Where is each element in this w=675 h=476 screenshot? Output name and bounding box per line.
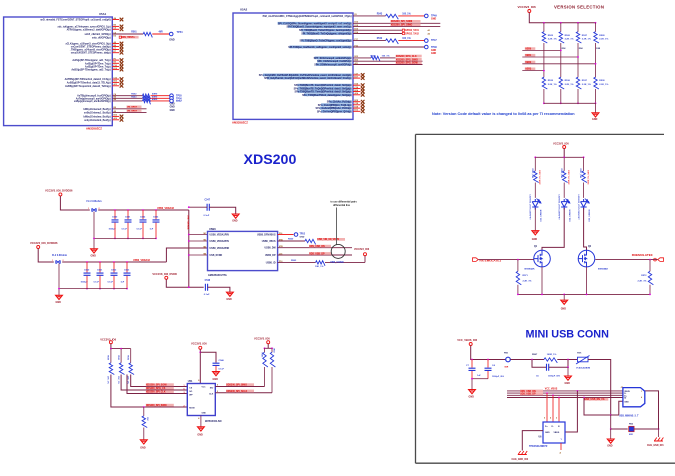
- pin F17 of U5A2: [301, 39, 351, 42]
- svg-text:1: 1: [52, 260, 53, 262]
- svg-text:R567_DNI: R567_DNI: [579, 169, 581, 179]
- wire branch down: [543, 23, 545, 32]
- svg-text:100_1%: 100_1%: [402, 38, 410, 40]
- net label XDS_USB_DP: [309, 252, 331, 255]
- svg-text:AxBS(p)SP-TDnn/gpmc_ad2_Tx(p): AxBS(p)SP-TDnn/gpmc_ad2_Tx(p): [71, 69, 110, 72]
- svg-text:XDS200_SPI1_SIMO: XDS200_SPI1_SIMO: [396, 59, 418, 61]
- svg-text:6: 6: [544, 418, 545, 420]
- test point TP55: [170, 94, 174, 98]
- svg-text:XDS200_SPI_SIMO: XDS200_SPI_SIMO: [391, 24, 413, 27]
- svg-text:XDS200_SPI_SOMI: XDS200_SPI_SOMI: [146, 385, 167, 387]
- resistor R546 100_1%: [371, 56, 380, 61]
- svg-text:2.2K_1%: 2.2K_1%: [582, 39, 591, 41]
- wire LED1 to ground: [534, 208, 536, 230]
- svg-text:2.2K_1%: 2.2K_1%: [565, 84, 574, 86]
- svg-text:SPn_TX8QBunTS/lcd_data3/gpmc_S: SPn_TX8QBunTS/lcd_data3/gpmc_SnQp(p): [302, 94, 352, 97]
- svg-text:49R: 49R: [159, 31, 164, 34]
- svg-text:100_1%: 100_1%: [402, 13, 410, 15]
- wire pin stub: [112, 78, 119, 80]
- port arrow RXEMULATE0: [658, 258, 664, 262]
- svg-text:2.2K_1%: 2.2K_1%: [599, 39, 608, 41]
- op-amp U5B6 USB PHY box: [208, 231, 278, 270]
- svg-text:100_1%: 100_1%: [382, 56, 390, 58]
- svg-text:XDS_USB_DN: XDS_USB_DN: [309, 246, 325, 248]
- svg-text:GND: GND: [169, 39, 175, 42]
- junction node top bus: [595, 22, 597, 24]
- wire resistor to LED: [583, 183, 585, 198]
- svg-text:BSS84AK: BSS84AK: [525, 267, 536, 270]
- net label VER3: [525, 68, 536, 71]
- op-amp U51 SPI flash box: [187, 384, 215, 416]
- wire resistor to TP: [151, 97, 170, 99]
- svg-text:SO: SO: [189, 391, 192, 393]
- svg-text:R567: R567: [532, 354, 538, 356]
- svg-text:2.2K_1%: 2.2K_1%: [638, 281, 647, 283]
- resistor R580 10K_1%: [109, 363, 114, 375]
- test point TP48: [425, 45, 429, 49]
- svg-text:R543: R543: [377, 12, 383, 15]
- svg-text:60R: 60R: [629, 434, 633, 436]
- svg-text:XDS200_SPI1_CS: XDS200_SPI1_CS: [146, 388, 166, 390]
- wire to ground: [471, 379, 473, 390]
- svg-text:M3: M3: [204, 246, 207, 248]
- svg-text:R572: R572: [641, 275, 647, 277]
- svg-text:GND: GND: [56, 301, 62, 304]
- svg-text:SPn_GnAnvQPBQpnn_QAn(p): SPn_GnAnvQPBQpnn_QAn(p): [317, 110, 352, 113]
- wire pin stub: [112, 59, 119, 61]
- wire cap bank bottom bus: [94, 237, 156, 239]
- wire branch to resistor: [563, 157, 565, 171]
- pin E15 of U5A2: [301, 29, 351, 32]
- svg-text:VCC3V3_IO6_DVDD36: VCC3V3_IO6_DVDD36: [45, 189, 73, 193]
- resistor R567 330R: [582, 171, 587, 183]
- ground: [213, 372, 220, 376]
- junction cap bottom: [127, 238, 129, 240]
- wire flash VCC: [199, 349, 201, 383]
- junction VER1: [577, 56, 579, 58]
- svg-text:C551: C551: [97, 270, 103, 272]
- wire pulldown to ground: [143, 428, 145, 440]
- svg-text:VERSION SELECTION: VERSION SELECTION: [554, 4, 604, 9]
- wire SIMO pulldown: [143, 407, 145, 416]
- svg-text:GND: GND: [592, 118, 598, 121]
- no-connect X: [361, 110, 365, 114]
- wire branch down: [595, 23, 597, 32]
- junction node bottom bus: [595, 102, 597, 104]
- no-connect X: [120, 115, 124, 119]
- svg-text:BSS84AK: BSS84AK: [598, 267, 609, 270]
- ground: [232, 214, 239, 218]
- junction LED branch: [534, 156, 536, 158]
- pin A14 of U5A2: [304, 93, 352, 96]
- svg-text:R535: R535: [548, 80, 554, 82]
- svg-text:USB0_ID: USB0_ID: [266, 262, 276, 264]
- no-connect X: [120, 65, 124, 69]
- svg-text:U5B6_VDDA18: U5B6_VDDA18: [133, 259, 151, 262]
- svg-text:GND: GND: [202, 413, 207, 415]
- wire VCC to bus: [529, 13, 595, 23]
- wire chassis stem: [658, 429, 660, 437]
- wire pin stub: [112, 69, 119, 71]
- svg-text:GND: GND: [140, 447, 146, 450]
- svg-text:5: 5: [217, 385, 218, 387]
- callout leader line: [336, 208, 338, 245]
- svg-text:VCC3V3_IO6: VCC3V3_IO6: [191, 341, 207, 345]
- wire branch down: [577, 23, 579, 32]
- resistor R584 10K_1%: [142, 416, 147, 428]
- svg-text:C542: C542: [140, 216, 146, 219]
- svg-text:VCC_VBUS_IO6: VCC_VBUS_IO6: [457, 338, 477, 342]
- ground: [56, 295, 63, 299]
- svg-text:R563: R563: [291, 260, 297, 262]
- svg-text:VB_SRST: VB_SRST: [127, 111, 138, 113]
- junction cap branch rail2: [86, 261, 88, 263]
- wire connector shell to chassis: [645, 391, 659, 429]
- resistor R587 10K_1%: [270, 352, 275, 367]
- svg-text:R528: R528: [599, 35, 605, 37]
- junction cap bottom rail2: [113, 288, 115, 290]
- svg-text:D55_GREEN: D55_GREEN: [589, 209, 591, 221]
- wire pin stub: [112, 19, 119, 21]
- no-connect X: [120, 58, 124, 62]
- wire cap bank 2 bottom bus: [59, 288, 127, 290]
- wire cap top lead: [126, 262, 128, 272]
- wire pullup to flash XDS200_SPI_CLK: [127, 375, 187, 394]
- pin D18 of U5A2: [320, 107, 352, 110]
- svg-text:GND: GND: [532, 238, 538, 241]
- net label XDS200_SPI_CLK: [146, 390, 174, 393]
- border frame of MINI USB sheet: [416, 134, 675, 463]
- svg-text:secuSU/GENT_STEOP/mmc_dat(p): secuSU/GENT_STEOP/mmc_dat(p): [71, 52, 111, 55]
- net label XDS200_SPI_SOMI: [146, 383, 174, 386]
- svg-text:VCC: VCC: [202, 387, 207, 389]
- svg-text:USB_DVDD: USB_DVDD: [210, 255, 223, 257]
- svg-text:AxBS(p)SP-Tnnpnn/lcd_data14_Tx: AxBS(p)SP-Tnnpnn/lcd_data14_TxDn(p): [65, 85, 111, 88]
- wire resistor to mid node: [560, 43, 562, 77]
- wire down to FB row: [610, 415, 612, 429]
- svg-text:USB0_VDDA1P8V: USB0_VDDA1P8V: [210, 234, 230, 237]
- svg-text:R565_DNI: R565_DNI: [531, 169, 533, 179]
- resistor R542 100_1%: [386, 39, 399, 44]
- svg-text:snby1Gn/xdmb_BuV(p): snby1Gn/xdmb_BuV(p): [84, 119, 111, 122]
- wire cap top lead: [155, 210, 157, 219]
- resistor R525 2.2K_1%: [542, 32, 547, 43]
- wire resistor to TP: [151, 100, 170, 102]
- junction cap bottom rail2: [99, 288, 101, 290]
- svg-text:SPB_GvlyPunnG_GvvQGP-GQnnSNnAP: SPB_GvlyPunnG_GvvQGP-GQnnSNnAPv/xdma_eve…: [264, 77, 352, 80]
- test point TP49: [425, 14, 429, 18]
- svg-text:0.1uF: 0.1uF: [122, 229, 128, 231]
- resistor R538 2.2K_1%: [594, 77, 599, 89]
- wire VER1 select: [522, 56, 578, 58]
- junction node top bus: [543, 22, 545, 24]
- svg-text:USB0_DP: USB0_DP: [265, 255, 276, 257]
- no-connect X: [361, 76, 365, 80]
- wire resistor 2 to bottom bus: [649, 285, 651, 295]
- wire cap top lead: [113, 262, 115, 272]
- junction Q2 gate pulldown: [649, 259, 651, 261]
- wire VCC drop: [364, 256, 366, 263]
- resistor R543 100_1%: [386, 14, 399, 19]
- svg-text:SPI-TX8QBunO_Suuonbv/gpmc_wpn/: SPI-TX8QBunO_Suuonbv/gpmc_wpn/gmii2_rxer…: [287, 26, 352, 29]
- svg-text:USB0_VDDA3P3D: USB0_VDDA3P3D: [210, 247, 230, 250]
- resistor R562 49R9: [143, 94, 151, 99]
- svg-text:VCC3V3_IO6: VCC3V3_IO6: [254, 336, 270, 340]
- wire rail VDDA33: [98, 209, 189, 211]
- wire branch A down: [264, 367, 266, 387]
- svg-text:VCC1V8_IO6_DVDD: VCC1V8_IO6_DVDD: [152, 272, 177, 276]
- junction node bottom bus: [543, 102, 545, 104]
- callout ellipse differential pair: [331, 244, 345, 258]
- wire to resistor R563: [112, 97, 142, 99]
- svg-text:XDS_USB_DP: XDS_USB_DP: [520, 394, 536, 396]
- no-connect X: [361, 87, 365, 91]
- no-connect X: [361, 93, 365, 97]
- svg-text:D54_GREEN: D54_GREEN: [569, 209, 572, 221]
- wire cap top lead: [142, 210, 144, 219]
- junction vertical feed: [188, 286, 190, 288]
- junction Q1 gate pulldown: [517, 259, 519, 261]
- svg-text:C541: C541: [125, 216, 131, 219]
- net bus rows to connector: [507, 390, 623, 392]
- wire to resistor R564: [112, 100, 142, 102]
- resistor R581 10K_1%: [119, 363, 124, 375]
- junction bottom bus: [563, 294, 565, 296]
- no-connect X: [361, 73, 365, 77]
- svg-text:LED0603_LTST-C190KFKT: LED0603_LTST-C190KFKT: [577, 195, 579, 221]
- wire pin stub: [112, 52, 119, 54]
- wire resistor to bottom bus: [595, 89, 597, 103]
- wire R563 to VCC drop: [325, 261, 365, 263]
- svg-text:TP54: TP54: [177, 31, 184, 34]
- chassis ground left: [518, 451, 527, 455]
- svg-text:0.1uF: 0.1uF: [204, 294, 210, 296]
- wire pin stub: [353, 94, 361, 96]
- svg-text:2.2K_1%: 2.2K_1%: [565, 39, 574, 41]
- net label XDS200_SPI_SIMO: [146, 404, 174, 407]
- svg-text:TP52: TP52: [300, 233, 306, 235]
- wire gnd stem mid: [610, 429, 612, 439]
- svg-text:snBp(p)/mcasp0_ahclkr/GPIO(p): snBp(p)/mcasp0_ahclkr/GPIO(p): [74, 100, 111, 103]
- wire VBUS to resistor: [278, 240, 305, 242]
- svg-text:LED0603_LTST-C190KFKT: LED0603_LTST-C190KFKT: [558, 195, 560, 221]
- svg-text:D6: D6: [114, 36, 116, 38]
- wire LED2 to Q1 drain: [542, 208, 564, 250]
- wire branch to resistor: [534, 157, 536, 171]
- wire resistor to LED: [534, 183, 536, 198]
- junction cap branch rail2: [99, 261, 101, 263]
- svg-text:GND: GND: [213, 378, 219, 381]
- no-connect X: [120, 84, 124, 88]
- svg-text:USB_VDDRAIL: USB_VDDRAIL: [186, 215, 189, 231]
- net label XDS200_SPI_SCLK right: [226, 390, 254, 393]
- wire LED3 to Q2 drain: [584, 208, 587, 250]
- junction cap branch: [127, 209, 129, 211]
- svg-text:TPD4S012DRYR: TPD4S012DRYR: [529, 445, 548, 448]
- wire pin stub: [112, 85, 119, 87]
- wire resistor to LED: [563, 183, 565, 198]
- wire USB0_DP: [278, 254, 352, 256]
- svg-text:M1: M1: [204, 233, 207, 235]
- net label XDS200_SPI1: [396, 61, 422, 64]
- no-connect X: [120, 77, 124, 81]
- wire pin stub: [353, 110, 361, 112]
- pin B12 of U5A2: [315, 57, 352, 60]
- wire pin stub: [112, 119, 119, 121]
- svg-text:A2: A2: [428, 33, 430, 36]
- wire VBUS to ESD right pin: [565, 391, 577, 432]
- wire pin stub: [112, 28, 119, 30]
- svg-text:C546: C546: [219, 359, 225, 362]
- wire bus to ground: [595, 103, 597, 112]
- svg-text:100R_1%: 100R_1%: [547, 354, 557, 356]
- wire pin stub: [112, 43, 119, 45]
- wire cap bottom lead: [99, 276, 101, 289]
- resistor R535 2.2K_1%: [542, 77, 547, 89]
- wire resistor to mid node: [543, 43, 545, 77]
- wire VBUS rail: [471, 346, 506, 360]
- svg-text:RXEMULATE0: RXEMULATE0: [632, 253, 653, 257]
- svg-text:WP: WP: [189, 394, 193, 396]
- wire C547 left lead: [189, 206, 207, 208]
- wire rail after FB1: [510, 359, 544, 361]
- pin B14 of U5A2: [297, 90, 351, 93]
- svg-text:snD_ninvalid_FSTConn/GENT_STEO: snD_ninvalid_FSTConn/GENT_STEOP/spi0_cs1…: [40, 19, 110, 22]
- no-connect X: [120, 62, 124, 66]
- wire cap C4 lead: [487, 360, 489, 368]
- svg-text:AM3359ZCZ: AM3359ZCZ: [86, 127, 102, 131]
- pin F15 of U5A2: [290, 46, 352, 49]
- svg-text:SIO: SIO: [210, 387, 214, 389]
- junction bus taps: [546, 392, 548, 394]
- wire pin stub: [353, 77, 361, 79]
- wire pullup branch: [130, 349, 132, 363]
- no-connect X: [361, 103, 365, 107]
- svg-text:XDS200: XDS200: [244, 152, 297, 168]
- net label XDS200_SPI1_CLK: [396, 55, 422, 58]
- pin C18 of U5A2: [321, 103, 351, 106]
- test point TP54: [169, 32, 173, 36]
- wire pin stub: [112, 115, 119, 117]
- svg-text:AM3359ZCZ: AM3359ZCZ: [232, 120, 248, 124]
- wire VER0 select: [522, 49, 561, 51]
- svg-text:USB0_DM: USB0_DM: [265, 248, 276, 250]
- svg-text:GND: GND: [232, 220, 238, 223]
- wire LED rail: [563, 149, 565, 158]
- no-connect X: [120, 45, 124, 49]
- svg-text:ESD_USB_DN_1%: ESD_USB_DN_1%: [585, 399, 605, 401]
- svg-text:C553: C553: [124, 270, 130, 272]
- resistor R565 330R: [534, 171, 539, 183]
- svg-text:snly_d0/GPIO(p): snly_d0/GPIO(p): [92, 36, 111, 39]
- junction VER3: [543, 70, 545, 72]
- resistor R586 10K_1%: [263, 352, 268, 367]
- wire rail to corner: [588, 360, 611, 416]
- wire gate pulldown: [517, 260, 519, 272]
- wire net XDS200_SPI: [353, 26, 440, 28]
- svg-text:2.2K_1%: 2.2K_1%: [548, 39, 557, 41]
- wire VER3 select: [522, 70, 544, 72]
- wire to net label: [380, 57, 396, 59]
- junction SIMO pulldown: [143, 406, 145, 408]
- wire pullup to flash XDS200_SPI1_CS: [121, 375, 187, 391]
- resistor R526 2.2K_1%: [559, 32, 564, 43]
- wire U6 bottom stub: [560, 443, 562, 450]
- wire right pullup branch B: [271, 348, 273, 352]
- wire USB0_DM: [278, 247, 352, 249]
- svg-text:6: 6: [184, 389, 185, 391]
- pin E18 of U5A2: [288, 25, 351, 28]
- wire to resistor R542: [353, 40, 386, 42]
- svg-text:DNI: DNI: [579, 48, 583, 50]
- wire gnd pin path: [611, 401, 623, 415]
- resistor R536 2.2K_1%: [559, 77, 564, 89]
- net label XDS200_SPI: [391, 20, 421, 23]
- svg-text:U5B6_VDDA33: U5B6_VDDA33: [157, 207, 175, 210]
- wire C548 to ground: [208, 287, 230, 292]
- svg-text:W25X40CLSN: W25X40CLSN: [205, 420, 222, 423]
- svg-text:LED0603_LTST-C190KFKT: LED0603_LTST-C190KFKT: [529, 195, 531, 221]
- svg-text:VCASLA5B0M: VCASLA5B0M: [576, 366, 590, 369]
- op-amp U5A1 IC box AM3359 JTAG bank: [4, 17, 113, 126]
- svg-text:XDS200_SPI_SIMO: XDS200_SPI_SIMO: [226, 385, 247, 387]
- svg-text:1000pF_50V: 1000pF_50V: [548, 375, 561, 377]
- wire pin stub: [112, 62, 119, 64]
- svg-text:R560: R560: [288, 239, 294, 241]
- svg-text:A1: A1: [428, 29, 430, 32]
- capacitor C6 1000pF_50V: [547, 364, 549, 371]
- svg-text:VB_SRST: VB_SRST: [127, 107, 138, 109]
- svg-text:TP48: TP48: [431, 46, 437, 49]
- wire cap bottom lead: [155, 223, 157, 239]
- wire cap top lead: [127, 210, 129, 219]
- pin C14 of U5A2: [297, 87, 351, 90]
- resistor R563 10K_1%: [316, 261, 325, 266]
- svg-text:GND: GND: [545, 432, 550, 434]
- svg-text:R563: R563: [131, 96, 137, 98]
- wire tap row2: [189, 240, 208, 242]
- wire to test point TP49: [398, 15, 424, 17]
- junction decoupling tap: [199, 351, 201, 353]
- net label USB_VBUS: [317, 238, 345, 241]
- no-connect X: [120, 42, 124, 46]
- wire bottom bus: [544, 102, 596, 104]
- ground: [561, 300, 568, 304]
- svg-text:CHG_GND_IO6: CHG_GND_IO6: [647, 445, 664, 447]
- wire power flag 3 to rail: [166, 279, 203, 287]
- wire cap C7 lead: [471, 360, 473, 368]
- svg-text:VCC3V3_IO6_DVDD36: VCC3V3_IO6_DVDD36: [30, 241, 58, 245]
- pin A11 of U5A2: [316, 63, 352, 66]
- wire Q2 gate: [595, 259, 657, 261]
- net label GPIO2_TA0: [402, 32, 404, 34]
- wire pin stub: [353, 101, 361, 103]
- svg-text:10K_1%: 10K_1%: [315, 266, 323, 268]
- wire pin stub: [353, 74, 361, 76]
- svg-text:U51: U51: [188, 380, 193, 383]
- svg-text:XDS200_SPI1_SOMI: XDS200_SPI1_SOMI: [396, 63, 418, 65]
- wire bead2 ground stem: [58, 264, 60, 295]
- svg-text:VCC3V3_IO6: VCC3V3_IO6: [100, 338, 116, 342]
- svg-text:R571: R571: [523, 275, 529, 277]
- wire branch down: [560, 23, 562, 32]
- test point TP56: [170, 97, 174, 101]
- svg-text:0.1uF: 0.1uF: [204, 215, 210, 217]
- net label XDS_TRSTn: [121, 36, 139, 39]
- junction node bottom bus: [577, 102, 579, 104]
- wire gate pulldown 2: [649, 260, 651, 272]
- svg-text:2.2K_1%: 2.2K_1%: [599, 84, 608, 86]
